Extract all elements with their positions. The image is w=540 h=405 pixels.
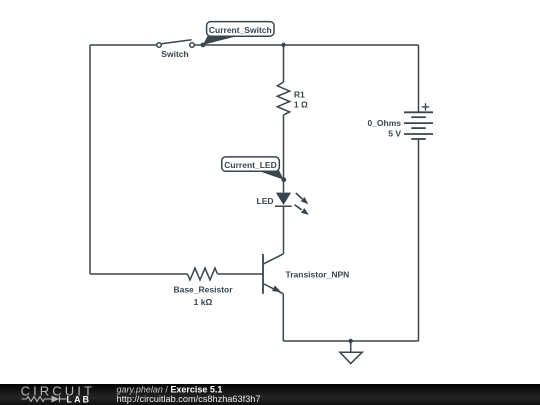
wire left vertical [89,45,91,274]
wire top left segment [90,44,157,46]
svg-text:1 kΩ: 1 kΩ [194,297,213,307]
wire R1 to LED [283,115,285,193]
svg-text:http://circuitlab.com/cs8hzha6: http://circuitlab.com/cs8hzha63f3h7 [117,394,261,404]
svg-text:gary.phelan / Exercise 5.1: gary.phelan / Exercise 5.1 [117,384,223,394]
wire base right segment [218,273,264,275]
transistor Q1 emitter diagonal [263,284,283,294]
battery V1 plates [404,112,433,139]
wire LED to transistor collector [283,206,285,254]
switch SW1 terminal circle left [157,43,162,48]
ground triangle [340,352,362,363]
battery V1 plus sign [422,103,429,110]
svg-text:Current_LED: Current_LED [224,160,276,170]
logo diode triangle [52,396,60,403]
label bubble Current_LED [222,157,284,180]
battery V1 top wire [418,45,420,112]
LED emission arrow 2 [295,205,309,215]
svg-text:Transistor_NPN: Transistor_NPN [286,270,350,280]
battery V1 bottom wire [418,139,420,341]
svg-text:0_Ohms: 0_Ohms [367,118,401,128]
ground stub [350,341,352,352]
LED emission arrow 1 [296,193,309,204]
transistor Q1 emitter arrowhead [272,286,281,293]
transistor Q1 collector diagonal [263,254,283,264]
resistor R1 [277,82,289,115]
label bubble Current_Switch [203,22,274,45]
node ground junction dot [349,339,353,343]
svg-text:Switch: Switch [161,49,188,59]
svg-text:5 V: 5 V [388,129,401,139]
svg-text:LED: LED [257,196,274,206]
diode LED triangle [276,193,291,205]
switch SW1 terminal circle right [190,43,195,48]
svg-text:LAB: LAB [67,395,92,405]
wire top right segment [195,44,419,46]
diode LED cathode bar [275,205,292,207]
wire base left segment [90,273,188,275]
svg-text:Current_Switch: Current_Switch [209,25,272,35]
wire bottom [283,340,418,342]
node junction dot at R1 top [281,43,285,47]
node Current_LED probe dot [281,177,286,182]
logo resistor-diode glyph [22,396,67,402]
svg-text:R1: R1 [294,89,305,99]
svg-text:1 Ω: 1 Ω [294,100,308,110]
resistor Base_Resistor [188,268,218,280]
switch SW1 lever [162,40,192,44]
node Current_Switch probe dot [201,43,206,48]
transistor Q1 base bar [262,254,264,294]
wire R1 top stub [283,45,285,82]
svg-text:Base_Resistor: Base_Resistor [173,285,233,295]
footer bar [0,384,540,405]
wire emitter down [282,294,284,341]
